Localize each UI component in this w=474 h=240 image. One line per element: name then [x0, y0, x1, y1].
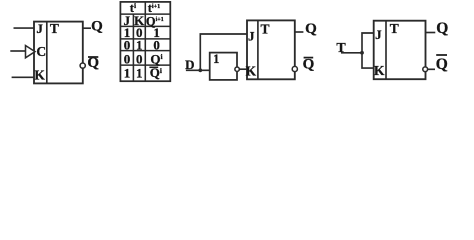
flip-flop U3 body: [374, 21, 426, 79]
wire K input: [12, 76, 34, 78]
table rule row2: [120, 50, 170, 52]
U1 divider: [46, 22, 48, 84]
svg-text:Q: Q: [436, 56, 448, 73]
wire T to J input: [362, 33, 374, 53]
svg-text:K: K: [246, 64, 257, 79]
table rule row3: [120, 64, 170, 66]
table column divider J/K: [132, 14, 134, 81]
wire U3 Q-bar stub: [428, 68, 435, 70]
svg-text:J: J: [248, 29, 255, 44]
table rule row1: [120, 38, 170, 40]
flip-flop U1 body: [34, 22, 83, 84]
svg-text:0: 0: [124, 51, 131, 66]
svg-text:1: 1: [124, 66, 131, 81]
inverter G1 output bubble: [235, 67, 239, 71]
bubble on U1 inverted output: [80, 63, 85, 68]
table column divider K/Q: [144, 2, 146, 81]
svg-text:K: K: [374, 63, 385, 78]
svg-text:Q: Q: [91, 18, 103, 34]
wire D input: [186, 69, 210, 71]
svg-text:1: 1: [136, 37, 143, 52]
svg-text:J: J: [36, 21, 43, 36]
inverter G1 body: [210, 53, 237, 80]
svg-text:J: J: [375, 27, 382, 42]
bubble on U2 inverted output: [292, 66, 297, 71]
bubble on U3 inverted output: [423, 67, 428, 72]
junction node on D wire: [198, 68, 202, 72]
wire J input: [14, 27, 35, 29]
wire inverter to K input: [239, 68, 247, 70]
svg-text:Q: Q: [436, 20, 448, 37]
svg-text:1: 1: [213, 52, 219, 66]
U3 divider: [385, 21, 387, 79]
clock edge triangle: [26, 46, 36, 58]
wire Q output: [83, 27, 91, 29]
table rule under header JKQ: [120, 25, 170, 27]
svg-text:T: T: [50, 21, 59, 36]
svg-text:0: 0: [136, 51, 143, 66]
svg-text:0: 0: [124, 37, 131, 52]
svg-text:K: K: [34, 67, 45, 82]
wire C clock input: [10, 50, 25, 52]
flip-flop U2 body: [247, 20, 295, 79]
svg-text:T: T: [260, 22, 269, 37]
wire U3 Q output: [426, 32, 436, 34]
wire U2 Q output: [295, 31, 304, 33]
svg-text:Q: Q: [303, 56, 315, 72]
svg-text:C: C: [36, 44, 46, 59]
svg-text:1: 1: [136, 66, 143, 81]
U2 divider: [257, 20, 259, 79]
svg-text:T: T: [390, 21, 399, 36]
wire D to J input: [200, 34, 247, 70]
wire T to K input: [362, 53, 374, 68]
svg-text:T: T: [336, 41, 346, 56]
junction node on T wire: [360, 51, 364, 55]
svg-text:0: 0: [153, 37, 160, 52]
svg-text:Q: Q: [305, 21, 317, 37]
wire T input: [341, 52, 362, 54]
truth table frame: [120, 2, 170, 81]
table rule under header t: [120, 13, 170, 15]
